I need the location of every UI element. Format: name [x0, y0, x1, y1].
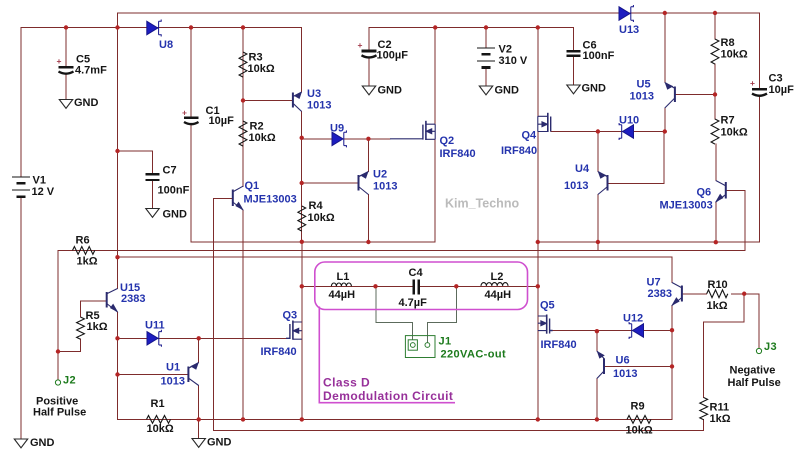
resistor R11 1k vertical x=703.7 — [700, 398, 708, 420]
wire V1 top lead — [20, 28, 22, 177]
capacitor C2 curved plate — [362, 55, 377, 57]
junction C4 L2 J1 node — [454, 284, 458, 288]
wire U7 emitter vertical — [671, 306, 673, 331]
junction U2 emitter output bus — [366, 240, 370, 244]
svg-text:C7: C7 — [163, 165, 177, 177]
wire U4 emitter vertical — [597, 195, 599, 250]
svg-text:MJE13003: MJE13003 — [660, 200, 713, 212]
diode U8 schottky — [147, 20, 161, 37]
junction U10 anode / U5 emitter — [663, 129, 667, 133]
svg-text:J1: J1 — [439, 336, 452, 348]
junction C7 branch — [115, 149, 119, 153]
svg-text:100nF: 100nF — [158, 185, 190, 197]
battery V1 12V — [12, 176, 30, 178]
wire Q6 emitter vertical — [715, 202, 717, 242]
wire U10 node vertical to U4 base corner — [663, 132, 665, 184]
svg-text:GND: GND — [30, 437, 55, 449]
wire GND bus y=419.4 — [118, 418, 673, 420]
svg-text:L2: L2 — [491, 271, 504, 283]
wire U2 emitter vertical to y=242 — [367, 195, 369, 243]
wire C5 bottom lead to GND — [65, 74, 67, 100]
junction Q6 emitter output bus — [714, 240, 718, 244]
wire U6 emitter vertical — [596, 379, 598, 420]
junction C5 top — [64, 25, 68, 29]
wire C7 bottom lead to GND — [152, 182, 154, 209]
wire U1 emitter GND stub — [198, 419, 200, 438]
wire U1 emitter vertical — [198, 386, 200, 420]
junction R8 top rail — [713, 11, 717, 15]
junction R4 bottom output bus — [300, 240, 304, 244]
junction U1 base node — [115, 372, 119, 376]
svg-text:1013: 1013 — [613, 368, 637, 380]
wire Q4 drain vertical — [537, 28, 539, 117]
svg-text:1013: 1013 — [373, 181, 397, 193]
junction R5 J2 node — [56, 349, 60, 353]
wire U7 base y=293.75 — [682, 293, 707, 295]
wire node to J3 horizontal — [744, 293, 759, 295]
svg-text:2383: 2383 — [121, 293, 145, 305]
wire 310V rail y=27.5 — [369, 27, 574, 29]
svg-text:C3: C3 — [769, 73, 783, 85]
ground symbol at C6 — [567, 85, 580, 94]
wire top 12V rail y=11.5 — [118, 12, 760, 14]
resistor R2 10k vertical x=243 — [239, 121, 247, 146]
junction U6 emitter GND bus — [595, 417, 599, 421]
svg-text:Q5: Q5 — [540, 300, 555, 312]
wire 12V rail extension to U3 collector corner — [243, 27, 302, 29]
resistor R8 10k vertical x=715 — [711, 39, 719, 64]
wire U6 collector vertical — [596, 331, 598, 351]
junction Q3 drain output node — [300, 284, 304, 288]
wire C1 bottom / bootstrap vertical to y=242 — [190, 125, 192, 242]
svg-text:Half Pulse: Half Pulse — [33, 407, 86, 419]
wire R3-R2 vertical x=243 — [242, 28, 244, 187]
svg-text:2383: 2383 — [648, 288, 672, 300]
ground symbol at U1 emitter — [192, 439, 205, 448]
mosfet Q4 IRF840 mirrored — [538, 113, 551, 132]
diode U10 schottky left-pointing — [619, 123, 633, 140]
wire drive bus y=257.2 (U15 collector line) — [118, 256, 673, 258]
svg-text:Class D: Class D — [323, 376, 370, 390]
svg-text:220VAC-out: 220VAC-out — [441, 349, 507, 361]
svg-text:310 V: 310 V — [499, 55, 528, 67]
svg-text:U10: U10 — [619, 115, 639, 127]
svg-text:U9: U9 — [330, 123, 344, 135]
wire Q5 gate wire y=330.5 through U12 — [550, 330, 673, 332]
svg-text:Kim_Techno: Kim_Techno — [445, 197, 519, 211]
svg-text:1kΩ: 1kΩ — [87, 321, 108, 333]
diode U12 schottky left-pointing — [629, 322, 643, 339]
svg-text:GND: GND — [74, 97, 99, 109]
wire Q4 gate wire y=131.5 to U10 chain — [551, 131, 665, 133]
svg-text:U5: U5 — [637, 79, 651, 91]
wire Q6 base horizontal y=190.4 — [726, 189, 745, 191]
wire output bus y=242 right section — [538, 241, 760, 243]
mosfet Q3 IRF840 — [286, 321, 302, 340]
svg-text:10µF: 10µF — [209, 115, 235, 127]
svg-text:R2: R2 — [250, 121, 264, 133]
svg-text:+: + — [750, 78, 755, 88]
wire U5 collector vertical — [664, 13, 666, 83]
svg-text:V1: V1 — [33, 175, 46, 187]
junction U12 anode U7 emitter — [670, 328, 674, 332]
junction Q5 source GND bus — [536, 417, 540, 421]
capacitor C3 curved plate — [752, 94, 767, 96]
wire R6 left vertical to J2 — [57, 250, 59, 351]
wire C3 top lead — [759, 13, 761, 88]
wire U15 emitter vertical — [117, 312, 119, 338]
magenta demodulation box — [315, 262, 528, 310]
resistor R9 10k horizontal y=419.4 — [627, 416, 651, 424]
junction U6 base node — [670, 364, 674, 368]
svg-text:GND: GND — [378, 85, 403, 97]
capacitor C6 100nF — [567, 50, 581, 52]
svg-text:10kΩ: 10kΩ — [721, 49, 748, 61]
junction Q1 emitter GND bus — [241, 417, 245, 421]
connector J2 terminal — [55, 380, 60, 385]
svg-text:10kΩ: 10kΩ — [626, 425, 653, 437]
svg-text:1013: 1013 — [630, 91, 654, 103]
wire V2 top lead — [485, 28, 487, 48]
svg-text:10kΩ: 10kΩ — [721, 127, 748, 139]
svg-text:R11: R11 — [710, 402, 730, 414]
wire U1 base y=374.5 — [118, 374, 189, 376]
svg-text:U8: U8 — [159, 39, 173, 51]
transistor U5 PNP 1013 mirrored — [665, 83, 675, 109]
transistor Q6 NPN MJE13003 mirrored — [716, 181, 726, 203]
wire Q1 base stub — [214, 198, 233, 200]
wire cross-couple bus y=430.4 — [214, 429, 704, 431]
svg-text:Q4: Q4 — [522, 130, 538, 142]
wire Q5 vertical through symbol to GND bus — [537, 286, 539, 419]
resistor R7 10k vertical x=715 — [711, 119, 719, 144]
svg-text:R8: R8 — [721, 37, 735, 49]
wire Q1 emitter vertical — [242, 210, 244, 419]
ground symbol at V1 — [14, 439, 27, 448]
svg-text:J3: J3 — [764, 341, 777, 353]
junction U15 emitter U11 anode — [115, 336, 119, 340]
capacitor C1 curved plate — [184, 122, 199, 124]
transistor U4 PNP 1013 mirrored — [598, 172, 608, 195]
junction U1 emitter R1 GND — [197, 417, 201, 421]
svg-text:1kΩ: 1kΩ — [707, 300, 728, 312]
svg-text:4.7mF: 4.7mF — [75, 65, 107, 77]
wire J2 stub — [57, 352, 59, 380]
svg-text:1kΩ: 1kΩ — [710, 413, 731, 425]
svg-text:U1: U1 — [166, 362, 180, 374]
wire R8-R7 link — [714, 64, 716, 119]
junction U9 anode node — [300, 136, 304, 140]
wire J1 right pin lead from C4/L2 node — [427, 287, 456, 342]
wire U7 collector vertical — [671, 257, 673, 282]
svg-text:U6: U6 — [616, 355, 630, 367]
wire Q2 drain vertical — [434, 28, 436, 125]
wire R11 top horizontal y=322 — [704, 321, 745, 323]
ground symbol at C2 — [362, 86, 375, 95]
inductor L2 44uH — [481, 283, 508, 286]
capacitor C1 10uF electrolytic — [184, 116, 199, 119]
wire R5 vertical — [80, 301, 82, 317]
svg-text:100nF: 100nF — [583, 50, 615, 62]
svg-text:Q6: Q6 — [697, 187, 712, 199]
capacitor C5 curved plate — [59, 72, 74, 74]
svg-text:R7: R7 — [721, 115, 735, 127]
wire R5 bottom horizontal — [58, 351, 81, 353]
svg-text:10kΩ: 10kΩ — [249, 132, 276, 144]
wire main left vertical x=117.5 (raw 12V down) — [117, 13, 119, 257]
capacitor C2 100uF electrolytic — [362, 50, 377, 53]
wire C1 top lead from after-U8 node — [190, 28, 192, 118]
resistor R6 1k horizontal y=250.4 — [73, 247, 95, 255]
svg-text:U11: U11 — [145, 320, 165, 332]
svg-text:44µH: 44µH — [485, 289, 512, 301]
wire J3 vertical stub — [758, 294, 760, 349]
svg-text:R3: R3 — [249, 52, 263, 64]
svg-text:U7: U7 — [647, 277, 661, 289]
ground symbol at V2 — [479, 86, 492, 95]
wire C2 top lead — [368, 28, 370, 51]
capacitor C3 10uF electrolytic — [752, 88, 767, 91]
wire Q1 collector vertical from R2 — [242, 146, 244, 187]
diode U11 schottky — [147, 330, 161, 347]
resistor R3 10k vertical x=243 — [239, 52, 247, 77]
transistor U3 PNP 1013 — [293, 92, 302, 112]
transistor U2 PNP 1013 — [359, 172, 369, 195]
svg-text:U12: U12 — [623, 313, 643, 325]
junction U6 collector Q5 gate — [595, 329, 599, 333]
wire C7 branch horizontal y=151 — [118, 150, 153, 152]
svg-text:L1: L1 — [337, 271, 350, 283]
svg-text:1kΩ: 1kΩ — [77, 256, 98, 268]
wire U15 collector vertical — [117, 257, 119, 288]
svg-text:U13: U13 — [619, 24, 639, 36]
ground symbol at C7 — [146, 209, 159, 218]
svg-text:Q2: Q2 — [440, 135, 455, 147]
svg-text:IRF840: IRF840 — [261, 346, 297, 358]
svg-text:C4: C4 — [409, 267, 424, 279]
svg-text:MJE13003: MJE13003 — [244, 194, 297, 206]
svg-text:10µF: 10µF — [769, 84, 795, 96]
resistor R5 1k vertical x=80.5 — [77, 317, 85, 339]
wire R5 bottom lead — [80, 339, 82, 352]
junction R10 R11 J3 node — [742, 292, 746, 296]
svg-text:1013: 1013 — [161, 376, 185, 388]
svg-text:1013: 1013 — [564, 180, 588, 192]
junction Q4 drain rail — [536, 25, 540, 29]
svg-text:+: + — [57, 56, 62, 66]
inductor L1 44uH — [331, 283, 351, 286]
svg-text:Half Pulse: Half Pulse — [728, 377, 781, 389]
junction Q2 drain rail — [433, 25, 437, 29]
wire U6 base y=366.4 — [604, 365, 672, 367]
wire Q2 source vertical — [434, 139, 436, 242]
wire Q6 base vertical to drive bus — [744, 190, 746, 250]
wire C6 top lead — [573, 28, 575, 50]
mosfet Q2 IRF840 — [390, 121, 435, 140]
capacitor C7 100nF — [146, 173, 160, 175]
wire U9 / Q2 gate wire y=138.8 — [302, 138, 390, 140]
svg-text:R6: R6 — [76, 235, 90, 247]
wire Q1 base vertical x=213.7 — [213, 199, 215, 431]
wire R10 node down — [743, 294, 745, 322]
svg-text:GND: GND — [582, 83, 607, 95]
wire J1 left pin lead from L1/C4 node — [376, 287, 413, 340]
svg-text:GND: GND — [163, 209, 188, 221]
wire bootstrap bus y=241.8 left section — [191, 241, 435, 243]
junction U4 emitter output bus — [596, 240, 600, 244]
wire output node y=286.3 L1 C4 L2 — [302, 285, 538, 287]
svg-text:Q3: Q3 — [283, 310, 298, 322]
svg-text:GND: GND — [207, 437, 232, 449]
svg-text:+: + — [182, 108, 187, 118]
svg-text:100µF: 100µF — [377, 50, 409, 62]
wire C5 top lead — [65, 28, 67, 67]
resistor R10 1k horizontal y=293.75 — [707, 290, 728, 298]
svg-text:Negative: Negative — [730, 365, 776, 377]
svg-text:R1: R1 — [151, 398, 165, 410]
battery V2 310V — [477, 47, 495, 49]
junction R3 top — [241, 25, 245, 29]
junction Q4 gate / U4 node — [596, 129, 600, 133]
wire R7 bottom lead to Q6 collector — [715, 144, 717, 181]
svg-text:IRF840: IRF840 — [440, 148, 476, 160]
wire V2 bottom lead to GND — [485, 68, 487, 87]
junction R3-R2 U3 base — [241, 98, 245, 102]
wire U11 wire y=338.3 to Q3 gate — [118, 337, 291, 339]
junction C1 top after U8 — [189, 25, 193, 29]
junction Q4 source output bus — [536, 240, 540, 244]
wire U4 base y=183.6 — [608, 183, 664, 185]
svg-text:+: + — [358, 40, 363, 50]
svg-text:10kΩ: 10kΩ — [308, 212, 335, 224]
wire C6 bottom lead to GND — [573, 57, 575, 85]
transistor U7 NPN 2383 mirrored — [672, 283, 682, 306]
svg-text:12 V: 12 V — [32, 186, 55, 198]
wire R11 top lead — [703, 322, 705, 398]
svg-text:44µH: 44µH — [329, 289, 356, 301]
resistor R1 10k horizontal y=419.4 — [147, 416, 171, 424]
junction U11 cathode U1 collector — [197, 336, 201, 340]
diode U9 schottky — [332, 130, 346, 147]
wire C3 bottom vertical — [759, 97, 761, 242]
svg-text:1013: 1013 — [307, 100, 331, 112]
wire R8 top lead — [714, 13, 716, 39]
transistor U15 NPN 2383 — [107, 289, 118, 313]
svg-text:U3: U3 — [307, 88, 321, 100]
svg-text:Demodulation Circuit: Demodulation Circuit — [323, 389, 453, 403]
wire U5 base y=94.5 — [675, 94, 715, 96]
wire U1 collector vertical — [198, 338, 200, 362]
wire Q4-Q5 link vertical — [537, 242, 539, 286]
junction L2 Q5 drain node — [536, 284, 540, 288]
svg-text:R4: R4 — [309, 200, 324, 212]
junction U2 base node — [300, 181, 304, 185]
wire U2 base y=183 — [302, 182, 359, 184]
connector J3 terminal — [756, 348, 761, 353]
svg-text:U2: U2 — [373, 169, 387, 181]
junction U15 collector drive bus — [115, 255, 119, 259]
wire Q3 vertical drain/source column — [301, 242, 303, 420]
junction V2 rail — [484, 25, 488, 29]
wire V1 bottom lead to GND — [20, 197, 22, 439]
transistor U1 PNP 1013 — [188, 363, 198, 386]
wire Q4 source vertical to y=242 — [537, 132, 539, 242]
wire x=302 node column U9->U2 base->R4 — [301, 138, 303, 242]
wire left 12V rail y=27.5 from V1 to R3 — [21, 27, 243, 29]
transistor Q1 NPN MJE13003 — [233, 186, 243, 210]
svg-text:4.7µF: 4.7µF — [399, 297, 428, 309]
junction L1 C4 J1 node — [373, 284, 377, 288]
svg-text:IRF840: IRF840 — [541, 339, 577, 351]
diode U13 schottky — [619, 5, 633, 22]
svg-text:10kΩ: 10kΩ — [147, 423, 174, 435]
wire drive bus y=250.4 (R6 line) — [58, 249, 745, 251]
svg-text:Q1: Q1 — [245, 180, 260, 192]
wire R9 right corner vertical up to U7 emitter — [671, 330, 673, 419]
wire U3 collector vertical — [301, 28, 303, 93]
wire C2 bottom lead to GND — [368, 59, 370, 86]
junction R8-R7 U5 base — [713, 92, 717, 96]
junction U9 cathode / U2 / Q2 gate — [366, 137, 370, 141]
svg-text:V2: V2 — [499, 44, 512, 56]
wire R10 right to node — [732, 293, 745, 295]
svg-text:GND: GND — [495, 85, 520, 97]
svg-text:R10: R10 — [708, 279, 728, 291]
wire U15 base y=300.8 — [81, 300, 107, 302]
svg-text:J2: J2 — [63, 375, 76, 387]
svg-text:R9: R9 — [631, 401, 645, 413]
capacitor C5 4.7mF electrolytic — [59, 66, 74, 69]
wire U4 collector vertical — [597, 132, 599, 172]
wire C7 top lead — [152, 151, 154, 173]
junction U5 collector top rail — [663, 11, 667, 15]
ground symbol at C5 — [59, 100, 72, 109]
wire U3 base y=100.5 — [243, 100, 293, 102]
junction Q3 source GND bus — [300, 417, 304, 421]
svg-text:IRF840: IRF840 — [501, 145, 537, 157]
wire U2 collector vertical to gate node — [367, 139, 369, 172]
transistor U6 PNP 1013 mirrored — [597, 351, 605, 379]
wire U5 emitter vertical to U10 node — [664, 108, 666, 132]
wire x=117.5 lower column — [117, 338, 119, 419]
capacitor C4 4.7uF vertical plates — [412, 280, 415, 295]
resistor R4 10k vertical x=302 — [298, 206, 306, 231]
svg-text:10kΩ: 10kΩ — [248, 63, 275, 75]
wire R11 bottom lead — [703, 420, 705, 431]
junction main vertical / 12V rail — [115, 25, 119, 29]
connector J1 220VAC out — [405, 336, 435, 358]
mosfet Q5 IRF840 mirrored — [538, 315, 553, 334]
svg-text:U4: U4 — [575, 163, 590, 175]
wire U3 emitter to U9 node — [301, 112, 303, 138]
